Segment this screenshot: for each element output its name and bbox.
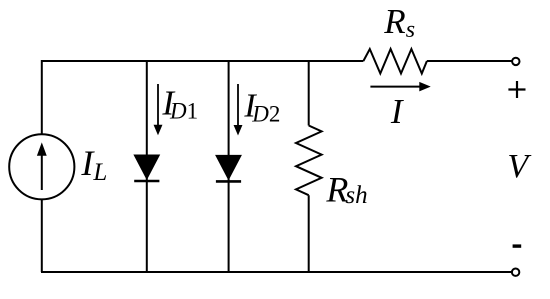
terminal + circle bbox=[512, 58, 519, 65]
wire bottom bbox=[41, 271, 512, 273]
current arrow I (through Rs) bbox=[370, 83, 429, 91]
wire diode D2 branch bbox=[228, 61, 230, 272]
wire left lower bbox=[41, 199, 43, 272]
svg-text:ID2: ID2 bbox=[243, 87, 280, 126]
diode D2 bbox=[216, 155, 241, 181]
wire top right (Rs to + terminal) bbox=[427, 60, 512, 62]
svg-text:IL: IL bbox=[80, 143, 107, 186]
resistor Rs zigzag bbox=[363, 49, 427, 74]
current arrow ID1 bbox=[154, 84, 161, 134]
wire Rsh upper bbox=[308, 61, 310, 126]
svg-text:Rs: Rs bbox=[383, 2, 415, 43]
terminal - circle bbox=[512, 269, 519, 276]
resistor Rsh zigzag bbox=[296, 126, 322, 196]
wire top left (node A to Rs) bbox=[41, 60, 363, 62]
wire diode D1 branch bbox=[146, 61, 148, 272]
label minus bbox=[513, 244, 522, 247]
svg-text:V: V bbox=[507, 148, 532, 185]
current arrow ID2 bbox=[234, 84, 241, 134]
wire left upper bbox=[41, 60, 43, 134]
wire Rsh lower bbox=[308, 195, 310, 272]
diode D1 bbox=[134, 155, 159, 181]
current source IL arrow bbox=[38, 144, 46, 190]
label plus bbox=[508, 81, 525, 98]
svg-text:Rsh: Rsh bbox=[325, 169, 367, 209]
svg-text:I: I bbox=[390, 92, 405, 131]
svg-text:ID1: ID1 bbox=[161, 84, 198, 124]
current source IL bbox=[9, 134, 74, 199]
